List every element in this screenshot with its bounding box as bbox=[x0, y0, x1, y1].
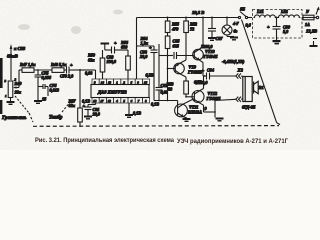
label R47 1,0к bbox=[20, 62, 36, 67]
svg-text:ДА3 К237УН2: ДА3 К237УН2 bbox=[97, 89, 127, 94]
label к С33 bbox=[14, 46, 26, 51]
label VT9 ГТ402Б bbox=[187, 65, 202, 75]
wire bottom return bbox=[214, 99, 236, 117]
label Громкость bbox=[1, 116, 27, 121]
label R57 82к bbox=[69, 99, 77, 109]
label VT12 ГТ403Б bbox=[206, 91, 221, 101]
svg-text:685: 685 bbox=[173, 44, 179, 49]
IC DA3 box bbox=[91, 85, 149, 98]
svg-text:18: 18 bbox=[93, 99, 97, 103]
callout diagonal from switch bbox=[242, 20, 281, 125]
svg-text:ГТ404Б: ГТ404Б bbox=[203, 54, 218, 59]
inductor L22 bbox=[278, 15, 301, 18]
svg-text:С79 2,0: С79 2,0 bbox=[60, 74, 74, 79]
ground under C81 bbox=[84, 116, 92, 120]
label 6ГД-8Е bbox=[242, 105, 256, 110]
label 2200,0 bbox=[200, 44, 213, 49]
svg-text:+: + bbox=[70, 63, 73, 68]
wire pin to ground bbox=[128, 103, 130, 114]
capacitor C79 bbox=[64, 67, 80, 74]
capacitor C81 bbox=[85, 103, 96, 116]
lamp HL1 bbox=[222, 18, 234, 37]
label -0,45В(1,2В) bbox=[222, 59, 245, 64]
svg-text:+: + bbox=[83, 104, 86, 109]
svg-text:L22: L22 bbox=[280, 9, 288, 14]
label DA3 К237УН2 bbox=[97, 89, 127, 94]
svg-text:82к: 82к bbox=[88, 58, 95, 63]
svg-text:0,08: 0,08 bbox=[85, 71, 93, 76]
ground-up symbol above C83 bbox=[101, 43, 110, 51]
wire rail drop left bbox=[136, 18, 138, 80]
ground under VT11 bbox=[183, 118, 191, 122]
svg-text:R47 1,0к: R47 1,0к bbox=[20, 62, 36, 67]
svg-text:12: 12 bbox=[108, 99, 112, 103]
label L22 bbox=[280, 9, 288, 14]
svg-text:1,2к: 1,2к bbox=[141, 41, 149, 46]
transistor VT12 bbox=[185, 76, 215, 112]
label 0,1В right bbox=[151, 102, 159, 107]
ground under C75 bbox=[34, 100, 42, 104]
capacitor C75 bbox=[35, 70, 42, 100]
wire vertical x159 bbox=[158, 44, 160, 84]
svg-text:17: 17 bbox=[101, 99, 105, 103]
callout volume dashed bbox=[15, 96, 29, 113]
label 0,6 bbox=[246, 23, 252, 28]
svg-text:L21: L21 bbox=[256, 9, 264, 14]
svg-text:10,0: 10,0 bbox=[93, 112, 101, 117]
svg-text:680: 680 bbox=[121, 45, 128, 50]
svg-text:33: 33 bbox=[167, 87, 172, 92]
wire y55 to VT10 bbox=[159, 55, 173, 57]
label 15 bbox=[42, 97, 46, 102]
svg-text:6ГД-8Е: 6ГД-8Е bbox=[242, 105, 256, 110]
svg-text:0,1В: 0,1В bbox=[133, 111, 141, 116]
svg-text:ГТ402Б: ГТ402Б bbox=[187, 70, 202, 75]
svg-text:72: 72 bbox=[190, 27, 194, 32]
resistor R55 bbox=[165, 18, 170, 37]
svg-text:УЗЧ радиоприемников А-271 и А-: УЗЧ радиоприемников А-271 и А-271Г bbox=[177, 138, 288, 145]
svg-text:F: F bbox=[306, 9, 309, 14]
svg-text:20,0: 20,0 bbox=[139, 54, 148, 59]
svg-text:100,0: 100,0 bbox=[107, 59, 117, 64]
svg-text:14: 14 bbox=[101, 81, 105, 85]
label C75 0,056 bbox=[42, 71, 52, 81]
pin 1 bbox=[5, 94, 7, 98]
capacitor C83 bbox=[105, 47, 128, 54]
IC bottom pin boxes bbox=[92, 98, 150, 104]
capacitor C88 bbox=[137, 45, 158, 101]
svg-text:5,0: 5,0 bbox=[283, 29, 289, 34]
resistor R57 bbox=[78, 108, 83, 127]
svg-text:МП41А: МП41А bbox=[187, 110, 202, 115]
ground under lamp bbox=[230, 37, 238, 41]
label C88 20,0 bbox=[139, 50, 148, 60]
label + C83 100,0 bbox=[107, 41, 118, 65]
capacitor C82 bbox=[156, 84, 163, 101]
label R53 33 bbox=[167, 82, 174, 92]
label C85 685 bbox=[173, 39, 180, 49]
svg-text:1А: 1А bbox=[305, 22, 310, 27]
resistor R56 bbox=[126, 50, 131, 79]
svg-text:6,5В: 6,5В bbox=[146, 73, 154, 78]
resistor R47 bbox=[22, 68, 34, 73]
label 10,8В bbox=[192, 10, 204, 15]
capacitor C84 bbox=[207, 73, 236, 80]
label VT10 ГТ404Б bbox=[203, 49, 218, 59]
label + C84 2200,0 bbox=[195, 68, 214, 86]
svg-text:470: 470 bbox=[171, 27, 179, 32]
svg-text:0,013: 0,013 bbox=[50, 88, 59, 93]
label 4,5В bbox=[146, 73, 154, 78]
label 0,1В mid bbox=[133, 111, 141, 116]
label L21 bbox=[256, 9, 264, 14]
wire output node bbox=[203, 75, 207, 77]
wire IC to VT11 bbox=[154, 100, 178, 102]
svg-text:0,6: 0,6 bbox=[246, 23, 252, 28]
svg-text:С87: С87 bbox=[216, 36, 224, 41]
label F 1А bbox=[305, 9, 310, 27]
scan smudges bbox=[18, 10, 123, 35]
label R52 72 bbox=[190, 22, 197, 32]
label C87 bbox=[216, 36, 224, 41]
svg-text:6з: 6з bbox=[234, 29, 238, 34]
svg-text:+: + bbox=[267, 25, 270, 30]
svg-text:к С33: к С33 bbox=[14, 46, 26, 51]
svg-text:82к: 82к bbox=[69, 103, 76, 108]
power rail 10,8В bbox=[137, 17, 239, 19]
resistor R50 bbox=[100, 50, 105, 79]
label R48 5,1к bbox=[51, 62, 67, 67]
resistor R58 bbox=[165, 36, 170, 56]
ground under R49 bbox=[7, 100, 15, 105]
transistor VT9 bbox=[167, 56, 186, 82]
resistor R53 bbox=[184, 81, 189, 97]
terminal minus bbox=[310, 39, 318, 48]
wire R47-R48 bbox=[34, 69, 52, 71]
label R54 1,2к bbox=[141, 36, 149, 46]
label 9 bbox=[205, 106, 208, 111]
transistor VT10 bbox=[193, 18, 204, 77]
terminal +12,2В bbox=[316, 7, 320, 19]
svg-text:13: 13 bbox=[108, 81, 112, 85]
dashed filter box bbox=[253, 10, 303, 39]
label Х2 bbox=[237, 68, 244, 73]
callout tone dashed bbox=[62, 101, 71, 112]
label R50 82к bbox=[88, 53, 96, 63]
IC top pin boxes bbox=[92, 79, 150, 85]
node A junction bbox=[79, 69, 96, 79]
connector X2 top bbox=[236, 73, 243, 78]
svg-text:10к: 10к bbox=[15, 90, 22, 95]
wire feedback x167 bbox=[167, 69, 169, 102]
label B1 bbox=[258, 85, 264, 90]
label + C81 10,0 bbox=[83, 104, 101, 117]
label 12,2В bbox=[306, 29, 317, 34]
svg-text:12,2В: 12,2В bbox=[306, 29, 317, 34]
pin 2 bbox=[15, 78, 17, 82]
pin numbers top bbox=[94, 81, 147, 85]
svg-text:В1: В1 bbox=[258, 85, 264, 90]
ground under C80 bbox=[273, 40, 281, 44]
fuse F bbox=[302, 15, 317, 20]
wire to R57 bbox=[79, 70, 81, 108]
label lamp bbox=[234, 29, 238, 34]
label R55 470 bbox=[171, 22, 179, 32]
capacitor C80 bbox=[273, 18, 281, 41]
svg-text:15: 15 bbox=[42, 97, 46, 102]
svg-text:SБ: SБ bbox=[240, 7, 245, 12]
svg-text:85мВ: 85мВ bbox=[7, 54, 18, 59]
ground mid bbox=[125, 114, 133, 118]
node input: arrow to C33 bbox=[10, 44, 13, 80]
svg-text:Х2: Х2 bbox=[237, 68, 244, 73]
ground bottom return bbox=[216, 118, 224, 122]
label 85мВ bbox=[7, 54, 18, 59]
svg-text:4-7: 4-7 bbox=[232, 21, 239, 26]
label R49 10к bbox=[15, 81, 23, 95]
svg-text:0,01: 0,01 bbox=[161, 90, 168, 95]
label VT11 МП41А bbox=[187, 105, 202, 115]
label 4-7 bbox=[232, 21, 239, 26]
label R56 680 bbox=[121, 40, 129, 50]
dashed module boundary bottom bbox=[29, 113, 279, 126]
svg-text:0,1В: 0,1В bbox=[151, 102, 159, 107]
svg-text:Громкость: Громкость bbox=[1, 116, 27, 121]
resistor R48 bbox=[52, 68, 64, 73]
wire input line bbox=[19, 69, 22, 71]
connector X2 bottom bbox=[236, 97, 243, 102]
resistor R52 bbox=[184, 18, 189, 56]
connector X1 left edge bbox=[0, 58, 3, 114]
label Тембр bbox=[49, 116, 63, 121]
svg-text:Тембр: Тембр bbox=[49, 116, 63, 121]
label C82 bbox=[161, 83, 168, 95]
speaker B1 bbox=[243, 77, 258, 102]
svg-text:Рис. 3.21. Принципиальная элек: Рис. 3.21. Принципиальная электрическая … bbox=[35, 137, 175, 144]
inductor L21 bbox=[254, 15, 277, 18]
svg-text:-0,45В(1,2В): -0,45В(1,2В) bbox=[222, 59, 245, 64]
capacitor C87 bbox=[208, 18, 216, 38]
label SB bbox=[240, 7, 245, 12]
svg-text:R48 5,1к: R48 5,1к bbox=[51, 62, 67, 67]
svg-text:+: + bbox=[202, 68, 205, 73]
svg-text:0,056: 0,056 bbox=[42, 75, 52, 80]
label C76 0,013 bbox=[50, 83, 59, 93]
label + C80 5,0 bbox=[267, 25, 291, 35]
ground under C87 bbox=[208, 37, 216, 41]
svg-text:16: 16 bbox=[144, 81, 148, 85]
capacitor C85 series bbox=[174, 52, 194, 59]
svg-text:10,8 В: 10,8 В bbox=[192, 10, 204, 15]
svg-text:С84: С84 bbox=[207, 68, 214, 73]
svg-text:2200,0: 2200,0 bbox=[195, 80, 208, 85]
pin numbers bottom bbox=[93, 99, 147, 103]
svg-text:+: + bbox=[114, 41, 117, 46]
transistor VT11 bbox=[175, 99, 195, 119]
svg-text:R49: R49 bbox=[15, 81, 23, 86]
label 0,08 bbox=[85, 71, 93, 76]
node between chokes bbox=[276, 17, 278, 19]
switch SB bbox=[238, 12, 252, 19]
capacitor C76 bbox=[38, 84, 48, 96]
label 6,5В bbox=[194, 80, 202, 85]
potentiometer R49 bbox=[8, 70, 19, 100]
pin 3 bbox=[5, 79, 7, 83]
label + C79 2,0 bbox=[60, 63, 74, 79]
label 0,1В left bbox=[82, 99, 90, 104]
